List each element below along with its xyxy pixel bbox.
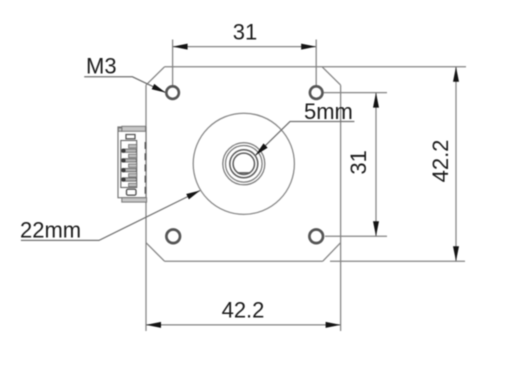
- arrow top of 31 right dimension: [373, 93, 379, 108]
- svg-text:22mm: 22mm: [20, 218, 81, 243]
- arrow top of 42.2 right dimension: [453, 67, 459, 82]
- dimension line 31 vertical right: [375, 93, 377, 237]
- connector top cap step: [118, 128, 122, 131]
- mounting hole bottom-left: [166, 230, 180, 244]
- mounting hole top-right: [310, 86, 323, 99]
- extension line above top-right hole: [315, 40, 317, 86]
- arrow left of 31 top dimension: [173, 44, 188, 50]
- svg-text:5mm: 5mm: [304, 99, 353, 124]
- svg-text:42.2: 42.2: [222, 298, 265, 323]
- connector stub contact 2: [129, 154, 137, 157]
- shaft bore circle 5mm: [233, 153, 254, 174]
- svg-text:42.2: 42.2: [428, 140, 453, 183]
- hub outer circle: [223, 143, 265, 185]
- chamfer top-right: [322, 67, 341, 85]
- extension line above top-left hole: [172, 40, 174, 86]
- arrow right of 42.2 bottom dimension: [326, 322, 341, 328]
- pilot circle 22mm: [193, 113, 294, 214]
- chamfer top-left: [146, 67, 165, 85]
- arrow bottom of 42.2 right dimension: [453, 246, 459, 261]
- leader line M3: [84, 77, 165, 93]
- hidden body edge dashes behind connector: [144, 142, 146, 195]
- dimension line 42.2 horizontal bottom: [146, 324, 341, 326]
- connector top cap: [122, 126, 146, 131]
- motor body bottom edge: [165, 260, 323, 262]
- leader arrow 5mm: [253, 143, 267, 157]
- connector stub contact 4: [129, 174, 137, 177]
- connector top latch: [126, 135, 135, 139]
- connector bottom latch: [127, 189, 137, 195]
- connector pin housing: [121, 141, 137, 188]
- extension line right of top-right hole: [324, 92, 388, 94]
- leader line 22mm: [21, 191, 200, 241]
- svg-text:31: 31: [233, 20, 257, 45]
- connector stub contact 5: [129, 183, 137, 186]
- leader arrow 22mm: [186, 188, 201, 200]
- arrow left of 42.2 bottom dimension: [146, 322, 161, 328]
- connector stub contact 1: [129, 145, 137, 148]
- connector pin 4: [122, 178, 137, 182]
- hub inner circle: [226, 146, 263, 183]
- connector bottom cap: [122, 198, 147, 202]
- leader line 5mm: [256, 122, 355, 156]
- mounting hole bottom-right: [309, 230, 323, 244]
- dimension line 31 horizontal top: [173, 46, 317, 48]
- chamfer bottom-right: [323, 243, 341, 262]
- svg-text:M3: M3: [86, 54, 117, 79]
- motor body right edge + lower extension line: [340, 85, 342, 331]
- connector stub contact 3: [129, 164, 137, 167]
- bottom edge right extension line: [330, 260, 465, 262]
- chamfer bottom-left: [146, 243, 165, 262]
- shaft flat chord: [237, 172, 250, 174]
- arrow right of 31 top dimension: [301, 44, 316, 50]
- arrow bottom of 31 right dimension: [373, 221, 379, 236]
- connector pin 2: [122, 159, 137, 163]
- dimension line 42.2 vertical right: [455, 67, 457, 261]
- connector body: [118, 127, 146, 198]
- shaft outer circle: [230, 150, 258, 178]
- mounting hole top-left M3: [166, 86, 179, 99]
- connector pin 3: [122, 168, 137, 172]
- connector pin 1: [122, 149, 137, 153]
- motor body top edge + right extension line: [165, 66, 467, 68]
- svg-text:31: 31: [346, 150, 371, 174]
- leader arrow M3: [152, 84, 167, 95]
- extension line right of bottom-right hole: [325, 235, 387, 237]
- motor body left edge + lower extension line: [145, 85, 147, 331]
